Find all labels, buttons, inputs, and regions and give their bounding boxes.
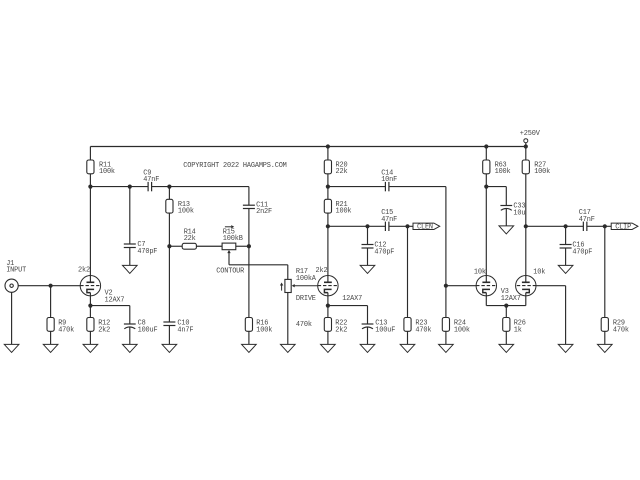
svg-text:47nF: 47nF: [381, 216, 397, 224]
svg-text:12AX7: 12AX7: [105, 296, 125, 304]
svg-text:470k: 470k: [415, 326, 431, 334]
svg-text:2k2: 2k2: [78, 267, 90, 275]
svg-text:100kA: 100kA: [296, 275, 317, 283]
svg-text:COPYRIGHT 2022 HAGAMPS.COM: COPYRIGHT 2022 HAGAMPS.COM: [183, 162, 286, 170]
svg-text:12AX7: 12AX7: [501, 295, 521, 303]
svg-text:10k: 10k: [533, 268, 545, 276]
svg-text:470k: 470k: [296, 321, 312, 329]
svg-text:470pF: 470pF: [137, 248, 157, 256]
svg-text:100k: 100k: [256, 326, 272, 334]
svg-text:100k: 100k: [336, 208, 352, 216]
svg-text:2k2: 2k2: [98, 326, 110, 334]
svg-text:470pF: 470pF: [572, 248, 592, 256]
svg-text:10k: 10k: [474, 268, 486, 276]
svg-text:100uF: 100uF: [375, 326, 395, 334]
svg-text:2k2: 2k2: [316, 267, 328, 275]
svg-text:47nF: 47nF: [143, 176, 159, 184]
svg-text:DRIVE: DRIVE: [296, 295, 316, 303]
svg-text:12AX7: 12AX7: [342, 295, 362, 303]
svg-text:100k: 100k: [178, 208, 194, 216]
svg-text:22k: 22k: [184, 235, 196, 243]
svg-text:470k: 470k: [613, 326, 629, 334]
svg-text:100uF: 100uF: [138, 326, 158, 334]
svg-text:4n7F: 4n7F: [177, 326, 193, 334]
svg-text:CLIP: CLIP: [615, 224, 631, 232]
svg-text:CONTOUR: CONTOUR: [216, 267, 244, 275]
svg-text:2n2F: 2n2F: [256, 208, 272, 216]
svg-text:47nF: 47nF: [579, 216, 595, 224]
svg-text:INPUT: INPUT: [6, 267, 26, 275]
svg-text:2k2: 2k2: [335, 326, 347, 334]
svg-text:470k: 470k: [58, 326, 74, 334]
svg-text:+250V: +250V: [520, 130, 541, 138]
svg-text:100k: 100k: [534, 168, 550, 176]
svg-text:22k: 22k: [336, 168, 348, 176]
svg-text:470pF: 470pF: [374, 248, 394, 256]
svg-text:CLEN: CLEN: [417, 224, 433, 232]
svg-text:1k: 1k: [514, 326, 522, 334]
svg-text:100kB: 100kB: [223, 235, 243, 243]
svg-text:100k: 100k: [99, 168, 115, 176]
svg-text:10nF: 10nF: [381, 176, 397, 184]
svg-text:100k: 100k: [495, 168, 511, 176]
svg-text:10u: 10u: [513, 209, 525, 217]
svg-text:100k: 100k: [454, 326, 470, 334]
